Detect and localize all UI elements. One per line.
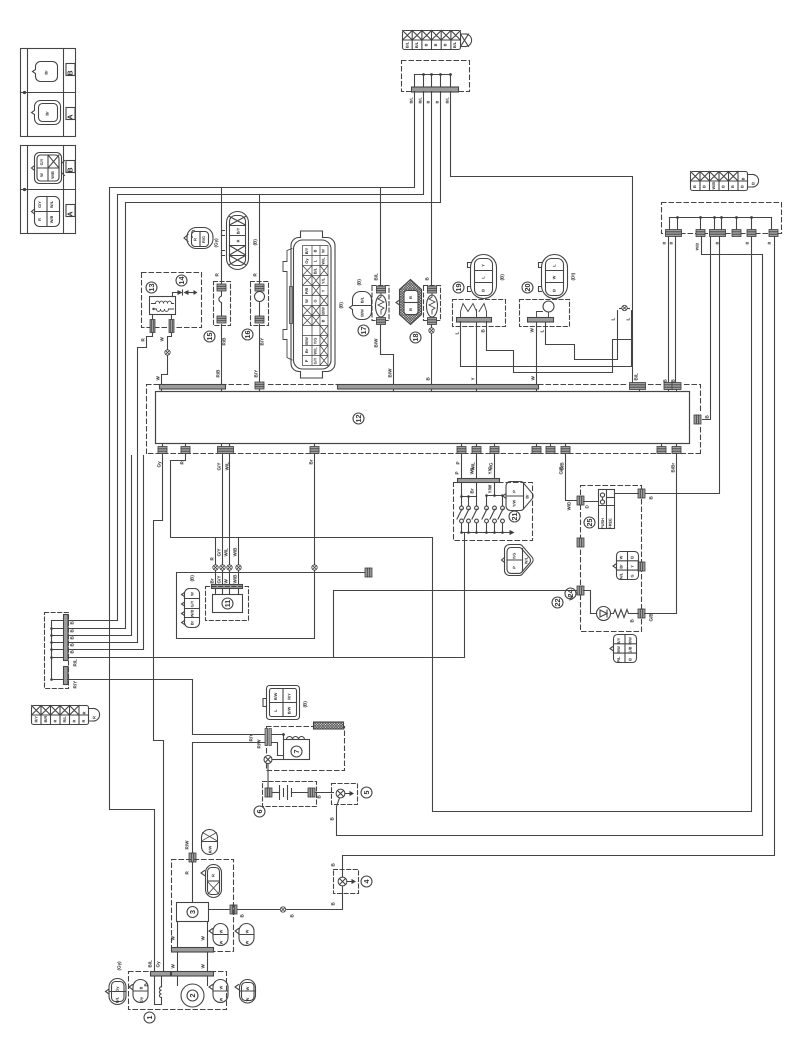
ignition coil 7 (dashed) (249, 722, 345, 793)
terminal R/W on CDI wire (189, 853, 196, 862)
wire B/Y (fuse 16 to bus) (259, 325, 261, 382)
main fuse 16 (dashed) (242, 253, 269, 346)
svg-text:W: W (190, 592, 195, 596)
headlight bulb 19 (dashed) (453, 300, 506, 335)
svg-text:W: W (219, 997, 224, 1001)
svg-text:Y: Y (471, 377, 476, 380)
svg-text:16: 16 (243, 331, 252, 339)
wire W (relay to bus) (168, 333, 172, 350)
svg-text:W/L: W/L (225, 462, 230, 471)
svg-text:B: B (424, 43, 429, 46)
svg-text:Br: Br (210, 578, 215, 583)
pin view Br (B side) (33, 62, 58, 82)
svg-text:B/L: B/L (374, 273, 379, 281)
wire G/B (harness to stop switch) (566, 454, 578, 501)
svg-text:(B): (B) (253, 239, 258, 246)
connector detail table 1 (top-left) (21, 49, 76, 137)
svg-text:W: W (171, 964, 176, 969)
svg-text:(Gy): (Gy) (214, 238, 219, 248)
svg-text:B: B (408, 308, 413, 311)
svg-text:Br: Br (190, 620, 195, 625)
svg-text:W: W (321, 249, 326, 253)
headlight B wire staircase (487, 322, 633, 373)
svg-text:3: 3 (188, 910, 197, 914)
wire B (ground 4 to rectifier 3) (287, 887, 343, 910)
connector (B) 2-pin for lamp 17 (350, 279, 372, 320)
svg-text:21: 21 (510, 513, 519, 521)
svg-text:B: B (408, 296, 413, 299)
connector 2-pin (R/W inline) (202, 830, 218, 855)
switch group 2 (494, 483, 496, 496)
svg-text:W: W (171, 936, 176, 941)
4-pin view B side (35, 153, 62, 184)
connector pair W/W (lower) (209, 980, 256, 1004)
svg-text:(B): (B) (339, 302, 344, 309)
triangle connector (P Y/W Br) (503, 481, 533, 510)
svg-text:R/W: R/W (628, 637, 633, 645)
relay assembly 13/14 (dashed) (141, 273, 202, 342)
svg-text:G/Y: G/Y (190, 600, 195, 607)
svg-text:W: W (530, 328, 535, 333)
wire B (top joint to tail bulb) (431, 92, 433, 286)
pickup coil (155, 976, 162, 1005)
svg-text:B/Y: B/Y (616, 637, 621, 644)
svg-text:L: L (626, 318, 631, 321)
connector strip (top center, 6-pin) (403, 31, 472, 50)
svg-text:B/L: B/L (452, 41, 457, 48)
wire B (right joint to ground 4) (343, 237, 775, 878)
wire B (right joint big loop to harness R terminal) (171, 237, 752, 812)
svg-text:B: B (435, 101, 440, 104)
wire R/B (fuse 15 to bus) (221, 325, 223, 385)
connector pair W/W (upper) (209, 924, 254, 946)
svg-text:R: R (81, 720, 86, 723)
svg-text:B: B (321, 319, 326, 322)
svg-text:B: B (662, 242, 667, 245)
svg-text:W: W (219, 985, 224, 989)
connector strip (top right, 6-pin) (691, 172, 759, 191)
svg-text:B: B (481, 289, 486, 292)
svg-text:B: B (730, 185, 735, 188)
bullet connector W relay (165, 350, 170, 355)
svg-text:L: L (540, 330, 545, 333)
svg-text:P: P (304, 359, 309, 362)
svg-text:B: B (628, 658, 633, 661)
magneto 1 (dashed) (129, 960, 227, 1023)
svg-text:Gy: Gy (157, 461, 162, 468)
svg-text:G: G (313, 299, 318, 302)
CDI magneto connector unit 11 (206, 571, 249, 621)
connector detail table 2 (left) (21, 146, 76, 234)
svg-text:Y: Y (630, 565, 635, 568)
taillight assembly 18 (hatched) (396, 280, 422, 344)
connector (B) 4-pin for unit 11 (182, 575, 200, 628)
position bulb 20 (dashed) (520, 300, 570, 333)
wire Gy (harness to magneto) (154, 454, 164, 972)
connector strip (bottom left, 6-pin) (32, 706, 100, 725)
svg-text:G/B: G/B (628, 646, 633, 653)
svg-text:G/Y: G/Y (313, 357, 318, 364)
stop switch contacts (599, 490, 615, 529)
svg-text:B: B (669, 242, 674, 245)
svg-text:B: B (740, 185, 745, 188)
engine stop switch unit 25 (dashed) (552, 486, 654, 632)
svg-text:R/B: R/B (216, 369, 221, 378)
bulb 20 connector (DI) 3-pin (522, 255, 576, 299)
contacts (457, 506, 504, 523)
bus bar mid (top) (338, 385, 539, 390)
terminal B/Y top (255, 382, 264, 389)
triangle connector (Y/G P W/L) double (502, 545, 534, 576)
svg-text:W/L: W/L (321, 257, 326, 265)
joint connector (left, dashed) (45, 613, 78, 689)
svg-text:P/L: P/L (616, 656, 621, 663)
switch group 1 (461, 483, 463, 506)
ground 4 (dashed) (331, 863, 373, 906)
svg-text:W/B: W/B (190, 610, 195, 618)
4-pin view A side (35, 197, 60, 227)
spark plug 6 (dashed) (254, 782, 334, 818)
svg-text:B: B (66, 167, 75, 172)
svg-text:19: 19 (454, 284, 463, 292)
svg-text:(B): (B) (500, 274, 505, 281)
CDI box 3 (177, 903, 209, 922)
svg-text:Y/W: Y/W (512, 500, 517, 508)
svg-text:B/Y: B/Y (236, 227, 241, 234)
svg-text:4: 4 (362, 880, 371, 884)
svg-text:W/L: W/L (313, 347, 318, 355)
rotor 2 (181, 984, 204, 1007)
svg-text:Gy: Gy (304, 258, 309, 264)
svg-text:W: W (219, 940, 224, 944)
svg-text:Y/G: Y/G (313, 338, 318, 345)
wires left joint to frame (69, 456, 132, 636)
svg-text:B/L: B/L (445, 97, 450, 104)
svg-text:B: B (630, 556, 635, 559)
svg-text:W: W (39, 173, 44, 177)
svg-text:7: 7 (292, 750, 301, 754)
svg-text:Br: Br (470, 488, 475, 493)
wire B (right joint to engine stop switch) (644, 237, 720, 494)
wire B (tail bulb to bus) + bullet (431, 325, 433, 385)
svg-text:R/W: R/W (273, 692, 278, 700)
svg-text:17: 17 (359, 327, 368, 335)
label 12 (353, 413, 364, 424)
svg-text:B/W: B/W (388, 368, 393, 378)
CDI unit connector (B) 26-pin (283, 231, 344, 378)
svg-text:W/B: W/B (50, 171, 55, 179)
wire B/L meter lamp feed (380, 188, 382, 286)
svg-text:L: L (611, 318, 616, 321)
main switch 21 assembly (454, 454, 533, 541)
svg-text:R/G: R/G (201, 236, 206, 243)
svg-text:B/L: B/L (405, 41, 410, 48)
svg-text:B/W: B/W (374, 338, 379, 348)
secondary junction (273, 759, 284, 761)
svg-text:Br: Br (525, 494, 530, 499)
primary box with winding (284, 740, 310, 760)
svg-text:R: R (92, 716, 97, 719)
svg-text:B: B (751, 182, 756, 185)
svg-text:W: W (245, 940, 250, 944)
wire G/Y (harness to bullets) (222, 454, 224, 565)
svg-text:G/Y: G/Y (217, 463, 222, 471)
svg-text:W/L: W/L (524, 556, 529, 564)
plug cap (314, 722, 344, 729)
indicator lamp and resistor (584, 591, 597, 614)
wire B (right joint to harness side terminal) (703, 237, 711, 420)
svg-text:B: B (552, 289, 557, 292)
svg-text:R: R (82, 711, 87, 714)
fuse 15 (dashed) (204, 253, 231, 346)
svg-text:B: B (745, 242, 750, 245)
svg-text:W/B: W/B (49, 216, 54, 224)
svg-text:W: W (531, 376, 536, 381)
svg-text:W/B: W/B (695, 243, 700, 251)
svg-text:R/Y: R/Y (287, 693, 292, 700)
meter lamp 17 (dashed) (358, 273, 389, 348)
svg-text:B: B (433, 43, 438, 46)
svg-text:11: 11 (223, 600, 232, 608)
svg-text:24: 24 (566, 590, 575, 598)
terminal B B top (664, 383, 673, 390)
svg-text:R: R (72, 720, 77, 723)
svg-text:B/L: B/L (313, 267, 318, 274)
svg-text:PUSH: PUSH (600, 518, 605, 529)
svg-text:Br: Br (44, 70, 49, 75)
svg-text:B/Y: B/Y (254, 370, 259, 378)
svg-text:P: P (456, 461, 461, 464)
svg-text:R/Y: R/Y (34, 716, 39, 723)
svg-text:R/Y: R/Y (73, 681, 78, 689)
svg-text:B/L: B/L (115, 996, 120, 1003)
wire B 4 (top joint to relay branch) (69, 92, 441, 629)
svg-text:A: A (66, 114, 75, 119)
svg-text:20: 20 (523, 284, 532, 292)
svg-text:G/Y: G/Y (37, 201, 42, 208)
svg-text:W: W (201, 936, 206, 941)
svg-text:B/L: B/L (148, 960, 153, 968)
svg-text:R/L: R/L (73, 659, 78, 667)
headlight 19 connector (B) 3-pin (453, 255, 505, 299)
stator leads W W (177, 922, 179, 948)
svg-text:B/R: B/R (43, 716, 48, 723)
svg-text:B/L: B/L (414, 41, 419, 48)
svg-text:1: 1 (145, 1016, 154, 1020)
wire W (bulb 20 to bus) (536, 322, 538, 385)
svg-text:B/L: B/L (409, 97, 414, 104)
wire B/W (lamp 17 to bus) (381, 325, 394, 385)
svg-text:W: W (156, 376, 161, 381)
svg-text:R: R (53, 720, 58, 723)
svg-text:A: A (66, 211, 75, 216)
wire B pair (right joint to harness top) (668, 237, 670, 384)
svg-text:L: L (455, 332, 460, 335)
svg-text:W: W (619, 555, 624, 559)
ground 5 (dashed) (332, 784, 373, 805)
svg-text:W: W (304, 299, 309, 303)
svg-text:W: W (245, 929, 250, 933)
svg-text:G/Y: G/Y (39, 158, 44, 165)
svg-text:14: 14 (177, 277, 186, 285)
svg-text:P: P (455, 471, 460, 474)
connector 2-pin male (in magneto box) (129, 980, 148, 1003)
svg-text:B: B (741, 177, 746, 180)
svg-text:B: B (767, 242, 772, 245)
svg-text:2: 2 (188, 994, 197, 998)
svg-text:Y: Y (481, 264, 486, 267)
wire B/Y fuse feed (259, 195, 261, 253)
svg-text:B/W: B/W (616, 646, 621, 654)
joint connector (top center, dashed) (402, 61, 470, 104)
wire R/Y (left joint to coil) (68, 680, 266, 735)
svg-text:Y/G: Y/G (488, 466, 493, 474)
svg-text:Br: Br (45, 111, 50, 116)
svg-text:B/L: B/L (360, 296, 365, 303)
wire G/B lamp out (645, 454, 677, 614)
wire R/W (coil to CDI unit) (192, 743, 194, 903)
svg-text:B/W: B/W (360, 309, 365, 317)
svg-text:6: 6 (255, 810, 264, 814)
svg-text:B/Y: B/Y (260, 338, 265, 346)
svg-text:18: 18 (411, 334, 420, 342)
wire R fuse feed (221, 188, 223, 253)
svg-text:W: W (245, 997, 250, 1001)
svg-text:B/Y: B/Y (304, 247, 309, 254)
svg-text:(Gy): (Gy) (117, 961, 122, 971)
svg-text:R/W: R/W (208, 845, 213, 853)
svg-text:Gy: Gy (115, 986, 120, 992)
svg-text:Gy: Gy (156, 961, 161, 968)
bottom terminals (158, 447, 167, 454)
svg-text:B: B (715, 242, 720, 245)
svg-text:Y: Y (321, 289, 326, 292)
svg-text:Gy: Gy (139, 996, 144, 1002)
wire W (horizontal feed to switch box) (69, 657, 465, 659)
svg-text:13: 13 (147, 284, 156, 292)
terminal B/L top wide (630, 383, 646, 390)
wire W/L (harness to bullets) (229, 454, 231, 565)
wire ground from switch 21 (464, 533, 466, 658)
svg-text:(B): (B) (303, 701, 308, 708)
headlight L wire loop with bullet (461, 311, 632, 367)
svg-text:FREE: FREE (608, 518, 613, 529)
svg-text:B: B (702, 185, 707, 188)
wire B/L 1 (top joint to left frame to ignition coil) (110, 92, 415, 973)
svg-text:22: 22 (553, 599, 562, 607)
svg-text:R: R (236, 239, 241, 242)
svg-text:W/L: W/L (49, 200, 54, 208)
svg-text:15: 15 (205, 333, 214, 341)
svg-text:B: B (692, 185, 697, 188)
svg-text:W: W (552, 275, 557, 279)
svg-text:R/B: R/B (222, 337, 227, 346)
svg-text:G/Y: G/Y (217, 576, 222, 584)
svg-text:Y/G: Y/G (512, 553, 517, 560)
wire Y (headlight to bus) (476, 322, 478, 385)
svg-text:R: R (37, 218, 42, 221)
wire Br (harness to flasher loop) (314, 454, 316, 565)
svg-text:Y/L: Y/L (321, 277, 326, 284)
terminal side right (694, 415, 701, 424)
svg-text:W/B: W/B (233, 574, 238, 584)
svg-text:G/Y: G/Y (217, 549, 222, 557)
svg-text:(B): (B) (190, 575, 195, 582)
tail bulb (dashed) (424, 277, 441, 325)
svg-text:W/D: W/D (567, 501, 572, 511)
svg-text:Y/W: Y/W (488, 484, 493, 493)
svg-text:B/Br: B/Br (671, 463, 676, 473)
svg-text:B: B (66, 70, 75, 75)
pin view Br (A side) (32, 101, 61, 125)
svg-text:12: 12 (354, 415, 363, 423)
relay box (150, 297, 176, 315)
diode 14 (173, 293, 178, 297)
svg-text:P: P (512, 490, 517, 493)
svg-text:R/Y: R/Y (249, 734, 254, 742)
svg-text:B/W: B/W (287, 706, 292, 714)
svg-text:Br: Br (309, 459, 314, 464)
svg-text:W: W (224, 579, 229, 584)
relay terminals (152, 315, 154, 320)
feed wires P W/L Y/G (461, 454, 463, 479)
svg-text:G/B: G/B (559, 466, 564, 475)
svg-text:5: 5 (362, 791, 371, 795)
6-pin connector (617, 552, 639, 580)
svg-text:B/W: B/W (321, 307, 326, 315)
svg-text:B: B (139, 986, 144, 989)
svg-text:W/L: W/L (470, 466, 475, 475)
6-pin connector (lower) (610, 635, 637, 663)
2-pin connector (206, 865, 222, 898)
svg-text:B: B (721, 185, 726, 188)
svg-text:W/B: W/B (233, 547, 238, 557)
svg-text:Br: Br (304, 348, 309, 353)
svg-text:R: R (211, 874, 216, 877)
coil terminals (265, 729, 268, 746)
svg-text:B/L: B/L (418, 97, 423, 104)
bullet connectors row (R G/Y W/L W/B) (213, 565, 218, 570)
svg-text:R/W: R/W (185, 840, 190, 850)
wire R branch to bullets (215, 538, 217, 565)
svg-text:P: P (512, 566, 517, 569)
svg-text:R/L: R/L (62, 716, 67, 723)
svg-text:25: 25 (585, 519, 594, 527)
svg-text:W: W (201, 964, 206, 969)
connector (B) 4-pin square (ignition coil) (263, 686, 308, 720)
harness main box 12 (156, 392, 690, 444)
CDI unit 3 (dashed) (172, 860, 234, 952)
connector (B) 5-pin tall oval (222, 212, 258, 270)
wire W/B (right joint to ground 5 loop) (341, 237, 763, 836)
svg-text:B: B (313, 249, 318, 252)
svg-text:G/B: G/B (649, 613, 654, 622)
bus bar left (top) (160, 385, 226, 390)
connector (Gy) 2-pin oval (184, 228, 219, 249)
svg-text:(B): (B) (357, 279, 362, 286)
svg-text:W: W (245, 986, 250, 990)
svg-text:R: R (193, 238, 198, 241)
wire B (ground 5 down) (337, 798, 341, 836)
wire B/L 2 (69, 92, 424, 621)
joint connector (right, dashed) (662, 203, 782, 251)
connector (Gy) 2-pin female (106, 961, 127, 1005)
svg-text:W: W (219, 929, 224, 933)
common bar with arrow (462, 523, 510, 533)
svg-text:Br: Br (619, 564, 624, 569)
svg-text:G: G (630, 574, 635, 577)
svg-text:B: B (443, 43, 448, 46)
